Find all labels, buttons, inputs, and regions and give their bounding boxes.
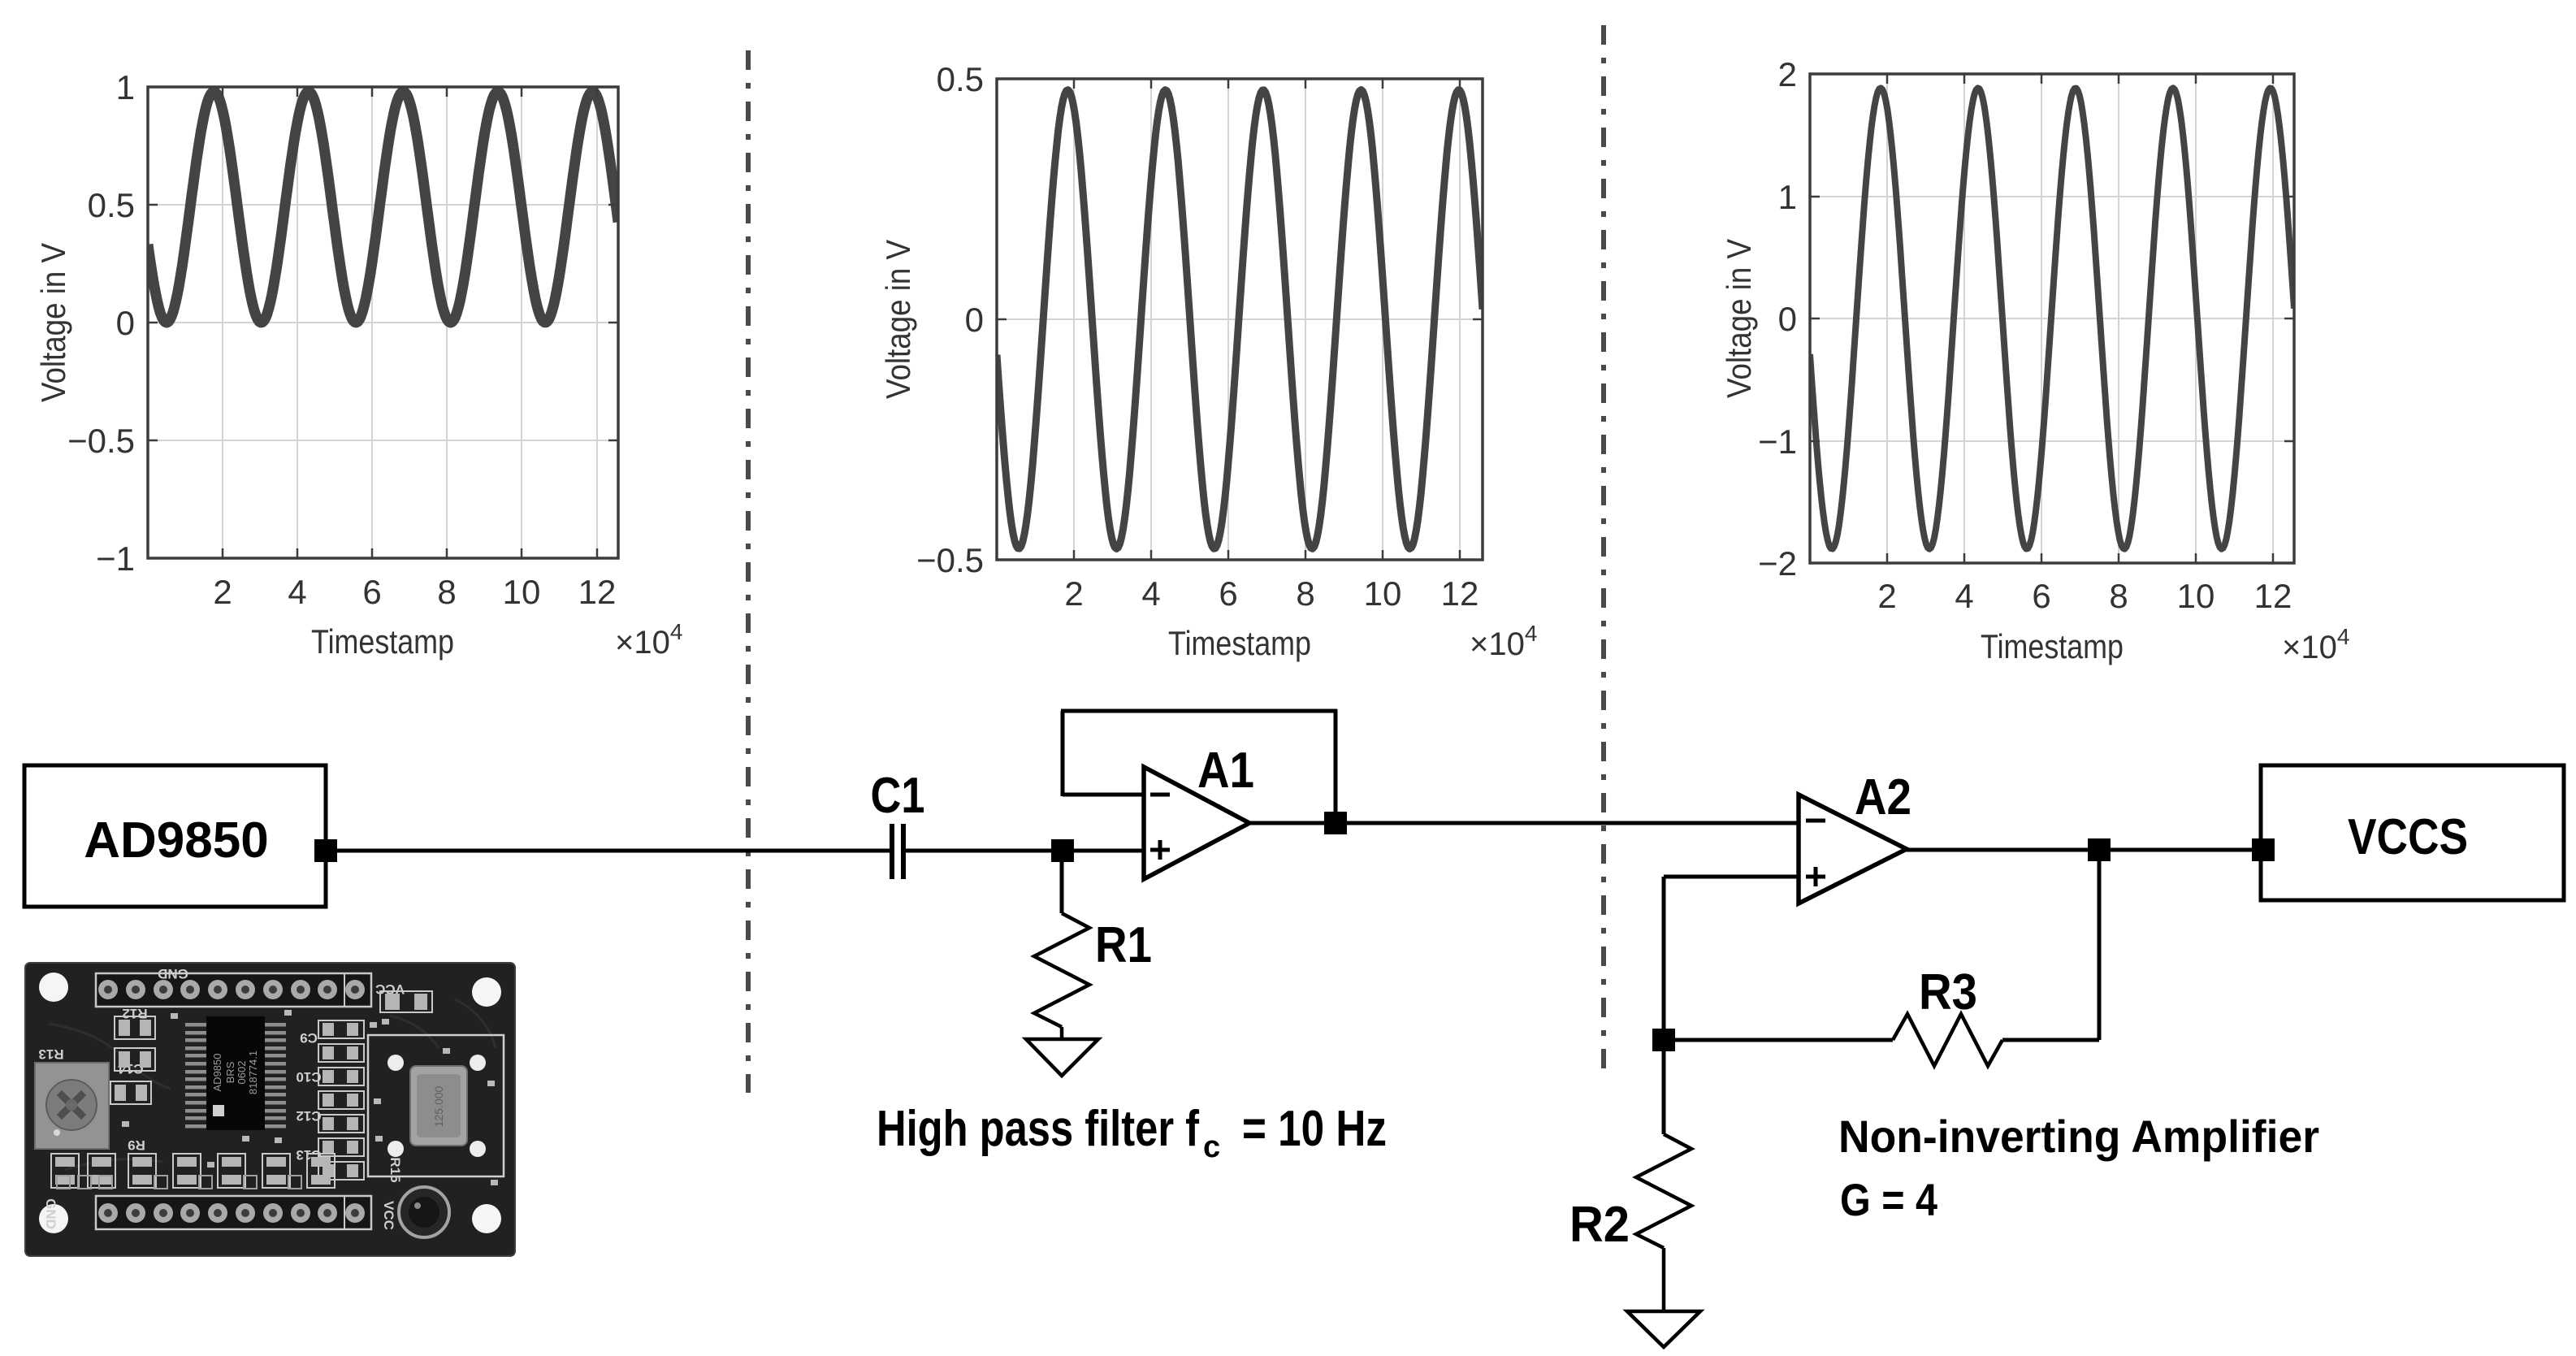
plot: input signal 0-1V bbox=[34, 53, 682, 661]
op-amp A2 (non-inverting amplifier) bbox=[1799, 795, 1907, 903]
wire R3 to output vertical riser bbox=[2002, 1038, 2099, 1042]
node AD9850 output bbox=[314, 839, 337, 862]
svg-text:= 10 Hz: = 10 Hz bbox=[1242, 1101, 1387, 1157]
wire input node to A1 plus input bbox=[1063, 849, 1144, 853]
svg-text:Voltage in V: Voltage in V bbox=[34, 243, 72, 402]
svg-text:c: c bbox=[1203, 1130, 1220, 1164]
svg-text:2: 2 bbox=[1778, 55, 1797, 93]
wire A1 feedback: top horizontal bbox=[1061, 709, 1337, 713]
svg-text:2: 2 bbox=[1877, 577, 1896, 615]
svg-text:12: 12 bbox=[1441, 574, 1479, 613]
wire AD9850 output to C1 bbox=[326, 849, 890, 853]
node A1 plus input / R1 top bbox=[1051, 839, 1074, 862]
plot: amplified signal +-2V bbox=[1720, 40, 2349, 665]
svg-text:125.000: 125.000 bbox=[432, 1085, 445, 1127]
node A2 output bbox=[2088, 838, 2111, 861]
svg-text:Non-inverting Amplifier: Non-inverting Amplifier bbox=[1838, 1111, 2319, 1162]
svg-text:8: 8 bbox=[2109, 577, 2128, 615]
svg-text:Timestamp: Timestamp bbox=[311, 622, 454, 661]
wire A1 feedback: right vertical bbox=[1334, 709, 1338, 823]
svg-text:2: 2 bbox=[1064, 574, 1083, 613]
svg-text:R2: R2 bbox=[1569, 1197, 1630, 1253]
svg-text:8: 8 bbox=[437, 573, 456, 611]
svg-text:C9: C9 bbox=[300, 1030, 318, 1046]
svg-text:High pass filter f: High pass filter f bbox=[877, 1101, 1199, 1157]
separator dash-dot line 2 bbox=[1601, 25, 1606, 1071]
svg-text:Voltage in V: Voltage in V bbox=[1720, 239, 1758, 398]
svg-text:R1: R1 bbox=[1095, 917, 1152, 973]
svg-text:A1: A1 bbox=[1197, 743, 1254, 799]
svg-text:0: 0 bbox=[965, 301, 984, 339]
svg-text:8: 8 bbox=[1296, 574, 1314, 613]
svg-text:Timestamp: Timestamp bbox=[1168, 624, 1311, 662]
svg-text:R13: R13 bbox=[38, 1046, 63, 1062]
svg-text:R12: R12 bbox=[122, 1006, 147, 1021]
wire feedback node to R3 bbox=[1664, 1038, 1893, 1042]
wire A2 output to VCCS bbox=[1905, 848, 2263, 852]
svg-text:10: 10 bbox=[2177, 577, 2215, 615]
svg-text:12: 12 bbox=[578, 573, 617, 611]
wire A2 plus input horizontal bbox=[1664, 875, 1800, 879]
svg-text:−0.5: −0.5 bbox=[67, 422, 135, 460]
svg-text:0: 0 bbox=[1778, 300, 1797, 338]
svg-text:GND: GND bbox=[43, 1198, 58, 1229]
resistor R3 bbox=[1893, 1014, 2002, 1066]
svg-text:4: 4 bbox=[1955, 577, 1973, 615]
wire A1 output to A2 minus input bbox=[1248, 821, 1800, 825]
node A1 output bbox=[1324, 812, 1347, 834]
node feedback junction bbox=[1652, 1029, 1675, 1051]
svg-text:0: 0 bbox=[116, 304, 135, 342]
svg-text:Voltage in V: Voltage in V bbox=[879, 240, 917, 399]
svg-text:818774.1: 818774.1 bbox=[247, 1051, 259, 1094]
ground (R2) bbox=[1627, 1311, 1700, 1347]
svg-text:4: 4 bbox=[1141, 574, 1160, 613]
svg-text:0.5: 0.5 bbox=[937, 60, 984, 98]
svg-text:6: 6 bbox=[1219, 574, 1237, 613]
svg-text:10: 10 bbox=[1364, 574, 1402, 613]
photo: AD9850 DDS module PCB bbox=[25, 963, 515, 1256]
block VCCS bbox=[2261, 765, 2564, 900]
svg-text:C1: C1 bbox=[871, 768, 925, 824]
wire A1 feedback: minus input bbox=[1063, 793, 1144, 797]
svg-text:2: 2 bbox=[213, 573, 232, 611]
wire C1 to input node bbox=[905, 849, 1063, 853]
wire A1 feedback: left vertical bbox=[1061, 711, 1065, 796]
svg-text:A2: A2 bbox=[1855, 769, 1911, 825]
resistor R2 bbox=[1662, 1040, 1666, 1134]
svg-text:−2: −2 bbox=[1758, 544, 1797, 583]
svg-text:G = 4: G = 4 bbox=[1840, 1174, 1937, 1225]
plot: high-pass filtered signal +-0.5V bbox=[879, 45, 1537, 662]
wire A2 plus input vertical down to feedback node bbox=[1662, 877, 1666, 1040]
svg-text:4: 4 bbox=[288, 573, 306, 611]
svg-text:1: 1 bbox=[116, 68, 135, 106]
svg-text:12: 12 bbox=[2254, 577, 2292, 615]
svg-text:10: 10 bbox=[503, 573, 541, 611]
svg-text:1: 1 bbox=[1778, 178, 1797, 216]
op-amp A1 (voltage follower) bbox=[1144, 767, 1249, 879]
resistor R1 bbox=[1060, 851, 1064, 913]
svg-text:−1: −1 bbox=[96, 539, 135, 578]
ground (R1) bbox=[1026, 1039, 1098, 1076]
svg-text:BRS: BRS bbox=[224, 1061, 236, 1083]
svg-text:C12: C12 bbox=[296, 1108, 321, 1124]
svg-text:Timestamp: Timestamp bbox=[1981, 627, 2124, 665]
svg-text:0.5: 0.5 bbox=[88, 186, 135, 224]
separator dash-dot line 1 bbox=[746, 50, 751, 1093]
block AD9850 signal generator bbox=[24, 765, 326, 907]
svg-text:GND: GND bbox=[158, 966, 188, 981]
svg-text:6: 6 bbox=[362, 573, 381, 611]
svg-text:AD9850: AD9850 bbox=[211, 1054, 223, 1092]
svg-text:0602: 0602 bbox=[236, 1061, 248, 1085]
svg-text:C10: C10 bbox=[296, 1069, 321, 1085]
svg-text:R9: R9 bbox=[128, 1137, 145, 1153]
svg-text:−1: −1 bbox=[1758, 422, 1797, 461]
svg-text:R3: R3 bbox=[1919, 964, 1977, 1020]
svg-text:6: 6 bbox=[2032, 577, 2050, 615]
svg-text:VCCS: VCCS bbox=[2348, 809, 2468, 865]
svg-text:−0.5: −0.5 bbox=[916, 541, 984, 579]
svg-text:AD9850: AD9850 bbox=[84, 812, 268, 869]
node VCCS input bbox=[2252, 838, 2275, 861]
capacitor C1 bbox=[890, 824, 894, 879]
svg-text:R15: R15 bbox=[387, 1157, 403, 1182]
svg-text:VCC: VCC bbox=[381, 1201, 396, 1230]
